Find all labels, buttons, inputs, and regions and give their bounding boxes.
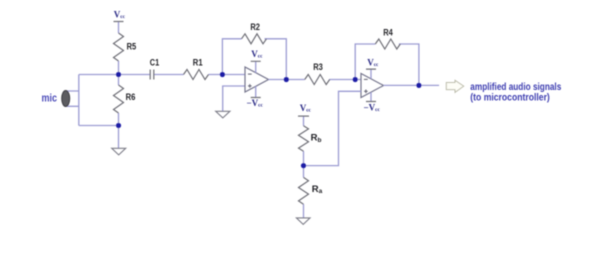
svg-text:R2: R2 [250,22,260,33]
svg-text:R3: R3 [313,62,323,73]
svg-text:R1: R1 [193,58,203,69]
svg-text:R4: R4 [383,28,393,39]
svg-text:R5: R5 [127,41,137,52]
svg-text:C1: C1 [150,58,160,69]
svg-text:(to microcontroller): (to microcontroller) [470,92,550,104]
svg-text:mic: mic [42,93,58,105]
svg-text:R6: R6 [126,92,136,103]
